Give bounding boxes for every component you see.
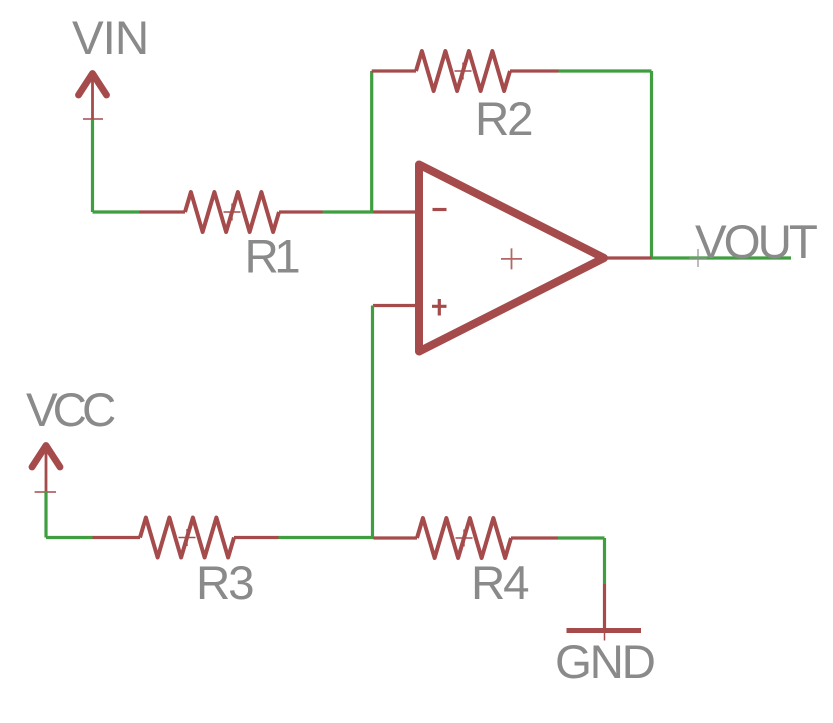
svg-text:VOUT: VOUT bbox=[695, 216, 817, 269]
svg-text:R1: R1 bbox=[245, 231, 300, 284]
resistor R1 bbox=[140, 192, 323, 232]
resistor R4 bbox=[374, 518, 559, 558]
svg-text:VCC: VCC bbox=[26, 384, 115, 437]
node VIN supply arrow bbox=[79, 74, 107, 121]
resistor R3 bbox=[93, 518, 279, 558]
wire VOUT bbox=[652, 256, 792, 259]
wire VIN horizontal bbox=[93, 210, 141, 213]
wire node A up to R2 bbox=[370, 71, 373, 212]
svg-text:GND: GND bbox=[555, 636, 655, 689]
svg-text:R3: R3 bbox=[196, 557, 253, 610]
wire VCC horizontal bbox=[46, 536, 93, 539]
svg-text:R2: R2 bbox=[475, 93, 532, 146]
ground bbox=[567, 584, 642, 641]
svg-text:VIN: VIN bbox=[72, 12, 148, 65]
label VOUT bbox=[689, 216, 817, 269]
svg-text:R4: R4 bbox=[471, 557, 529, 610]
wire VCC vertical bbox=[44, 491, 47, 538]
wire plus input vertical bbox=[371, 306, 374, 539]
wire R1 to node A bbox=[323, 210, 374, 213]
op-amp U1 bbox=[373, 165, 652, 352]
wire R4 to GND corner bbox=[558, 536, 605, 539]
wire R2 to output corner bbox=[559, 69, 652, 72]
wire VIN vertical bbox=[91, 120, 94, 213]
node VCC supply arrow bbox=[32, 446, 60, 493]
wire feedback vertical bbox=[650, 71, 653, 258]
resistor R2 bbox=[372, 51, 559, 91]
wire GND vertical bbox=[603, 538, 606, 584]
wire R3 to node B bbox=[279, 536, 374, 539]
